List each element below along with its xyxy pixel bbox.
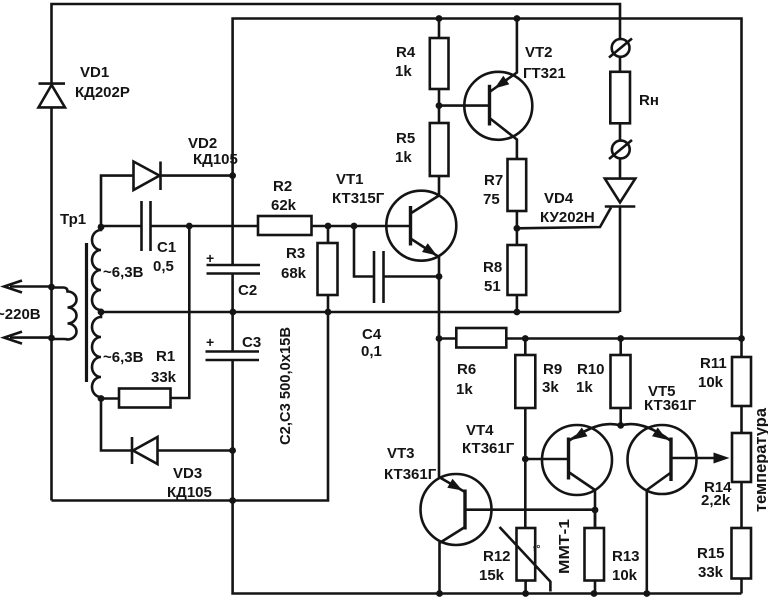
svg-text:10k: 10k — [698, 374, 724, 391]
svg-text:VD3: VD3 — [173, 465, 202, 482]
svg-text:КУ202Н: КУ202Н — [540, 209, 595, 226]
wire bottom-left link — [52, 499, 233, 502]
transformer T1 core — [85, 243, 88, 382]
svg-text:R3: R3 — [286, 245, 305, 262]
node R6 left — [436, 335, 443, 342]
svg-text:68k: 68k — [281, 265, 307, 282]
svg-text:R1: R1 — [156, 348, 175, 365]
svg-text:ММТ-1: ММТ-1 — [556, 519, 573, 574]
resistor R7 — [508, 159, 527, 211]
wire thyristor gate — [517, 208, 611, 229]
connector terminal X2 — [609, 123, 632, 159]
svg-text:33k: 33k — [151, 369, 177, 386]
svg-text:75: 75 — [483, 191, 500, 208]
node R9 top — [522, 335, 529, 342]
svg-text:КТ315Г: КТ315Г — [332, 190, 385, 207]
svg-text:~6,3В: ~6,3В — [103, 349, 144, 366]
svg-text:температура: температура — [752, 407, 768, 512]
transistor VT5 КТ361Г — [621, 424, 697, 593]
transformer T1 primary winding — [52, 288, 77, 340]
wire C1 to R2 node — [151, 225, 259, 228]
resistor R12 — [517, 528, 536, 581]
svg-text:C3: C3 — [242, 334, 261, 351]
node R10 top — [617, 335, 624, 342]
node center tap — [98, 309, 105, 316]
thermistor diagonal ММТ-1 — [500, 527, 551, 592]
resistor R15 — [732, 528, 752, 579]
svg-text:ГТ321: ГТ321 — [523, 65, 566, 82]
node R4 top rail — [436, 15, 443, 22]
wire top rail from top-left corner to lamp branch — [52, 4, 621, 501]
node VT4 collector/R13 — [592, 507, 599, 514]
resistor R13 — [585, 510, 605, 594]
node VT2 emitter rail — [514, 15, 521, 22]
node R4/R5 — [436, 102, 443, 109]
resistor R9 — [515, 339, 535, 529]
resistor R3 — [318, 226, 338, 312]
wire mains lower lead with arrow — [4, 332, 52, 344]
wire R4/R5 node to VT2 base — [439, 104, 490, 107]
wire R1 left lead — [101, 397, 119, 400]
wire mains upper lead with arrow — [4, 281, 52, 293]
node C1/R2 — [186, 223, 193, 230]
svg-text:Rн: Rн — [639, 92, 659, 109]
svg-text:VD4: VD4 — [544, 190, 574, 207]
wire C4 right plate to emitter line — [385, 275, 440, 278]
resistor R2 — [258, 216, 312, 235]
svg-text:62k: 62k — [271, 197, 297, 214]
node R8 bottom rail — [514, 309, 521, 316]
svg-text:VT3: VT3 — [387, 445, 415, 462]
svg-text:КТ361Г: КТ361Г — [644, 397, 697, 414]
diode VD3 — [132, 437, 233, 464]
resistor Rн load — [610, 57, 630, 124]
node R9/VT4 base — [522, 456, 529, 463]
svg-text:0,1: 0,1 — [361, 343, 382, 360]
wire second rail from rectifier output node across to right rail — [233, 19, 742, 594]
resistor R5 — [430, 123, 449, 176]
svg-text:R5: R5 — [396, 130, 415, 147]
node R10/emitters — [617, 422, 624, 429]
node VT3 collector bottom — [436, 590, 443, 597]
node secondary top terminal — [98, 224, 105, 231]
svg-text:КТ361Г: КТ361Г — [384, 466, 437, 483]
node R7/R8 gate — [514, 225, 521, 232]
svg-text:R15: R15 — [697, 545, 725, 562]
wire from top secondary terminal up to VD2 anode — [101, 176, 134, 226]
svg-text:~220В: ~220В — [0, 306, 41, 323]
svg-text:R2: R2 — [273, 178, 292, 195]
svg-text:VT1: VT1 — [336, 171, 364, 188]
wire from bottom secondary terminal down to VD3 — [101, 399, 132, 451]
svg-text:1k: 1k — [395, 63, 412, 80]
transformer T1 lower secondary winding — [92, 312, 101, 399]
svg-text:R11: R11 — [700, 355, 727, 372]
svg-text:R4: R4 — [396, 44, 416, 61]
svg-text:Тр1: Тр1 — [60, 211, 86, 228]
transistor VT4 КТ361Г — [525, 424, 620, 528]
resistor R10 — [611, 339, 631, 426]
node R13 bottom — [591, 590, 598, 597]
svg-text:51: 51 — [484, 278, 501, 295]
resistor R6 — [456, 328, 506, 348]
thyristor VD4 КУ202Н — [605, 159, 636, 313]
wire C4 branch from R2 node — [354, 226, 373, 277]
wire center-tap rail y=312 — [101, 311, 620, 314]
node secondary bottom terminal — [98, 395, 105, 402]
svg-text:R6: R6 — [457, 361, 476, 378]
connector terminal X1 — [609, 39, 632, 58]
transformer T1 upper secondary winding — [92, 226, 101, 312]
diode VD1 — [39, 84, 66, 108]
svg-text:КТ361Г: КТ361Г — [462, 440, 515, 457]
capacitor C2 — [207, 265, 261, 274]
transistor VT3 КТ361Г — [421, 339, 596, 594]
wire R2 right to VT1 base — [312, 225, 411, 228]
node R2/R3 — [325, 223, 332, 230]
node VD2 cathode bus — [229, 172, 236, 179]
svg-text:VD2: VD2 — [188, 135, 217, 152]
node mains lower — [48, 335, 55, 342]
svg-text:R10: R10 — [577, 361, 605, 378]
transistor VT1 КТ315Г — [386, 176, 456, 339]
svg-text:1k: 1k — [395, 149, 412, 166]
node VT5 collector bottom — [643, 590, 650, 597]
node C4/VT1 emitter — [436, 273, 443, 280]
svg-text:VD1: VD1 — [80, 64, 109, 81]
capacitor C4 — [374, 251, 384, 303]
svg-text:2,2k: 2,2k — [701, 492, 731, 509]
svg-text:1k: 1k — [576, 379, 593, 396]
svg-text:КД202Р: КД202Р — [75, 84, 130, 101]
resistor R14 potentiometer — [732, 433, 751, 482]
node R12 bottom — [522, 590, 529, 597]
node R2/C4/VT1 base — [351, 223, 358, 230]
wire R3 branch rectangle down-left — [233, 312, 328, 501]
svg-text:1k: 1k — [456, 381, 473, 398]
svg-text:R9: R9 — [543, 361, 562, 378]
svg-text:C2,C3 500,0x15В: C2,C3 500,0x15В — [277, 327, 294, 445]
svg-text:R7: R7 — [484, 172, 503, 189]
svg-text:КД105: КД105 — [193, 151, 238, 168]
svg-text:VT4: VT4 — [466, 422, 494, 439]
svg-text:15k: 15k — [479, 567, 505, 584]
svg-text:t°: t° — [533, 544, 540, 555]
node R3 bottom — [325, 309, 332, 316]
wire VT5 base to R14 wiper with arrow — [671, 453, 730, 464]
capacitor C1 — [142, 201, 151, 251]
svg-text:33k: 33k — [698, 564, 724, 581]
svg-text:КД105: КД105 — [167, 484, 212, 501]
wire R8 bottom to center-tap rail — [516, 295, 519, 312]
wire R12 bottom — [524, 581, 527, 594]
svg-text:+: + — [206, 334, 214, 350]
node rail right — [738, 335, 745, 342]
transistor VT2 ГТ321 — [464, 19, 532, 160]
diode VD2 — [134, 162, 233, 191]
svg-text:3k: 3k — [542, 379, 559, 396]
wire rectifier vertical bus x=233 — [231, 176, 234, 265]
wire C1 row — [101, 225, 141, 228]
node mains upper — [48, 284, 55, 291]
capacitor C3 — [206, 352, 260, 361]
svg-text:~6,3В: ~6,3В — [103, 264, 144, 281]
svg-text:0,5: 0,5 — [153, 258, 174, 275]
svg-text:R13: R13 — [612, 548, 640, 565]
svg-text:C2: C2 — [238, 282, 257, 299]
wire node to R1 vertical — [171, 226, 190, 398]
node bus corner y500 — [229, 497, 236, 504]
resistor R4 — [430, 19, 449, 124]
resistor R1 — [119, 389, 171, 408]
svg-text:VT2: VT2 — [525, 44, 553, 61]
svg-text:10k: 10k — [612, 567, 638, 584]
svg-text:R8: R8 — [483, 259, 502, 276]
resistor R8 — [508, 245, 527, 295]
svg-text:C1: C1 — [157, 239, 176, 256]
node VD3 cathode bus — [229, 447, 236, 454]
svg-text:+: + — [206, 250, 214, 266]
svg-text:R12: R12 — [483, 548, 511, 565]
resistor R11 — [732, 357, 751, 406]
wire R7 to R8 — [516, 211, 519, 245]
svg-text:C4: C4 — [362, 326, 382, 343]
node C2 bottom — [230, 309, 237, 316]
wire lower rail y=338.5 — [439, 337, 742, 340]
